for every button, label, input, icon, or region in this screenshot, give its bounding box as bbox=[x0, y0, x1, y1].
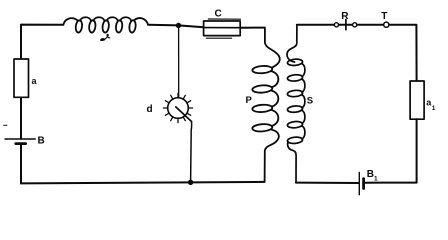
wire: junction down to rotary switch bbox=[178, 27, 180, 97]
rotary switch d: ticks bbox=[163, 93, 192, 122]
wire: capacitor to primary coil corner bbox=[240, 27, 264, 29]
wire: wiper arm down to bottom junction bbox=[191, 122, 192, 182]
svg-text:S: S bbox=[307, 95, 313, 106]
svg-text:T: T bbox=[381, 11, 387, 22]
wire: left circuit top-left segment bbox=[21, 25, 63, 59]
svg-text:C: C bbox=[215, 9, 222, 20]
svg-text:B: B bbox=[38, 135, 45, 146]
wire: resistor a1 to bottom right corner bbox=[364, 119, 417, 183]
svg-text:R: R bbox=[341, 11, 349, 22]
svg-text:d: d bbox=[147, 104, 153, 115]
node junction (top, to rotary d) bbox=[176, 23, 181, 28]
contact R: right circle bbox=[353, 23, 357, 27]
capacitor C: body bbox=[204, 21, 241, 36]
wire: left circuit bottom bbox=[21, 182, 265, 184]
scan speck (left edge) bbox=[4, 124, 7, 126]
transformer primary coil P bbox=[252, 28, 280, 182]
wire: battery B1 to secondary bottom bbox=[296, 182, 359, 184]
battery B1: long plate bbox=[358, 172, 360, 194]
label L (script) bbox=[101, 34, 110, 40]
capacitor C: lower stroke bbox=[206, 37, 231, 39]
contact R: bar bbox=[345, 20, 347, 30]
wire: top wire from coil to junction to capacitor bbox=[148, 25, 204, 27]
resistor a bbox=[14, 59, 29, 97]
battery B: long plate bbox=[5, 138, 35, 140]
svg-text:1: 1 bbox=[374, 176, 378, 183]
resistor a1 bbox=[410, 81, 424, 119]
battery B: short plate bbox=[16, 142, 26, 145]
battery B1: short plate bbox=[362, 179, 365, 189]
inductor L (coil on top wire) bbox=[63, 17, 148, 33]
wire between R contacts bbox=[339, 24, 353, 26]
svg-text:a: a bbox=[32, 76, 38, 86]
wire: secondary top corner to R bbox=[297, 24, 335, 26]
capacitor C: upper stroke bbox=[208, 18, 240, 20]
wire: battery B to bottom wire bbox=[20, 144, 22, 184]
capacitor C: lead through body bbox=[204, 27, 241, 29]
wire: R to T bbox=[357, 24, 384, 26]
svg-text:B: B bbox=[367, 169, 374, 180]
contact R: left circle bbox=[334, 23, 338, 27]
svg-text:1: 1 bbox=[432, 105, 436, 112]
wire: T to right corner down to resistor a1 bbox=[389, 25, 417, 81]
transformer secondary coil S bbox=[287, 25, 305, 183]
rotary switch d: circle bbox=[168, 98, 189, 119]
rotary switch d: wiper arm bbox=[176, 107, 192, 122]
wire: left vertical below resistor to battery bbox=[20, 97, 22, 139]
svg-text:P: P bbox=[246, 95, 253, 106]
node junction (bottom, from rotary d) bbox=[188, 180, 193, 185]
contact T: circle bbox=[384, 22, 389, 27]
